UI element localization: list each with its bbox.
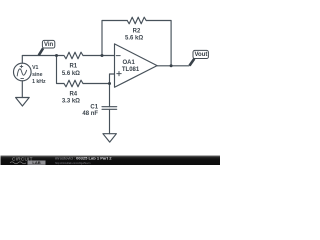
svg-text:sine: sine	[32, 72, 42, 78]
svg-text:C1: C1	[90, 105, 98, 111]
op-amp OA1 triangle	[115, 44, 158, 87]
wire: V1 top to R1 left terminal	[22, 56, 63, 64]
svg-text:V1: V1	[32, 65, 38, 71]
wire: Vin node down to R4 left terminal	[57, 56, 65, 84]
flag Vout	[190, 50, 209, 65]
svg-text:Vout: Vout	[194, 52, 207, 58]
wire: V1 bottom to ground	[21, 81, 23, 98]
wire: feedback left vertical and top to R2	[102, 21, 127, 56]
wire: R4 right to non-inverting node	[83, 83, 110, 85]
ground under V1	[16, 98, 30, 107]
wire: node up to op-amp non-inverting input	[110, 74, 115, 84]
svg-text:R4: R4	[69, 91, 77, 97]
svg-text:LAB: LAB	[32, 160, 40, 165]
wire: R1 right to op-amp inverting input	[83, 55, 115, 57]
logo wave	[10, 162, 26, 164]
logo LAB box	[28, 161, 46, 165]
svg-text:3.3 kΩ: 3.3 kΩ	[62, 99, 80, 105]
svg-text:http://circuitlab.com/c6gw5uvm: http://circuitlab.com/c6gw5uvm	[55, 161, 90, 165]
wire: node down to C1 top plate	[109, 84, 111, 107]
svg-text:1 kHz: 1 kHz	[32, 79, 46, 85]
capacitor C1	[102, 107, 117, 110]
flag Vin	[39, 40, 55, 55]
ground under C1	[103, 134, 117, 142]
voltage source V1	[13, 63, 31, 81]
svg-text:Vin: Vin	[44, 42, 54, 48]
footer bar	[1, 156, 221, 166]
op-amp non-inverting input mark	[117, 72, 121, 76]
resistor R1	[64, 52, 83, 59]
resistor R2	[127, 17, 146, 24]
svg-text:5.6 kΩ: 5.6 kΩ	[62, 71, 80, 77]
wire: op-amp output to Vout	[157, 65, 189, 67]
svg-text:R1: R1	[69, 64, 77, 70]
wire: R2 right, down to output node	[146, 21, 171, 66]
svg-text:5.6 kΩ: 5.6 kΩ	[125, 36, 143, 42]
op-amp inverting input mark	[116, 55, 120, 57]
node: output junction dot	[170, 64, 173, 67]
wire: C1 bottom to ground	[109, 109, 111, 133]
svg-text:TL081: TL081	[122, 67, 140, 73]
resistor R4	[64, 80, 83, 87]
svg-text:OA1: OA1	[123, 60, 136, 66]
node: non-inverting junction dot	[108, 82, 111, 85]
node: Vin junction dot	[55, 54, 58, 57]
node: inverting input junction dot	[101, 54, 104, 57]
svg-text:48 nF: 48 nF	[82, 111, 98, 117]
svg-text:R2: R2	[133, 29, 141, 35]
svg-text:mrostovtd : 00325 Lab 1 Part 2: mrostovtd : 00325 Lab 1 Part 2	[55, 156, 112, 161]
